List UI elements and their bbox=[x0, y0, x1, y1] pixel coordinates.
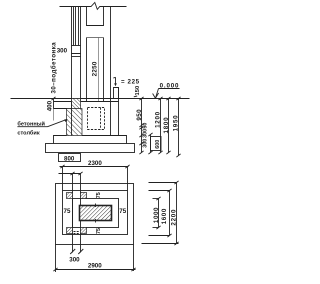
curb right of column bbox=[114, 88, 119, 99]
svg-text:1000: 1000 bbox=[153, 207, 160, 223]
svg-text:600: 600 bbox=[155, 140, 161, 149]
svg-text:75: 75 bbox=[64, 208, 71, 215]
svg-text:300: 300 bbox=[143, 139, 149, 148]
svg-text:150: 150 bbox=[135, 86, 141, 96]
svg-text:800: 800 bbox=[64, 155, 75, 162]
ground line 0.000 bbox=[11, 98, 190, 100]
label l=225 with arrow bbox=[113, 77, 139, 86]
level mark 0.000 bbox=[153, 83, 180, 99]
plan right dims extensions bbox=[142, 183, 179, 244]
concrete post hatch lower bbox=[67, 102, 83, 136]
plan post squares top row bbox=[67, 193, 87, 199]
footing edge extensions to dim 2300 bbox=[63, 167, 128, 191]
svg-text:1800: 1800 bbox=[163, 117, 170, 134]
svg-text:75: 75 bbox=[96, 228, 102, 234]
column outer right edge bbox=[110, 7, 112, 102]
plan rect R2 footing bbox=[63, 191, 128, 235]
plan pedestal hatched thick rect bbox=[80, 206, 112, 221]
plan post squares bottom row bbox=[67, 228, 87, 234]
svg-text:1600: 1600 bbox=[161, 208, 168, 224]
label 75 left bbox=[64, 208, 71, 215]
plan dim 1000 bbox=[153, 197, 161, 229]
label 75 bottom rotated bbox=[96, 228, 102, 234]
column inner rect bbox=[87, 38, 104, 102]
label 400 vertical bbox=[47, 97, 56, 111]
pedestal outline below ground bbox=[111, 88, 119, 136]
svg-text:950: 950 bbox=[136, 109, 143, 121]
label 2250 vertical bbox=[91, 61, 98, 76]
svg-text:75: 75 bbox=[96, 192, 102, 198]
label betonny stolbik with leader bbox=[17, 119, 67, 136]
plan outer rect R1 bbox=[56, 184, 134, 245]
svg-text:2250: 2250 bbox=[91, 61, 98, 76]
svg-text:300: 300 bbox=[69, 256, 80, 263]
dim line B 600 boxed bbox=[148, 133, 161, 154]
U slot at top bbox=[87, 7, 104, 26]
svg-text:1200: 1200 bbox=[154, 111, 161, 128]
foundation top line bbox=[54, 101, 119, 103]
svg-text:50: 50 bbox=[143, 123, 149, 129]
svg-text:400: 400 bbox=[47, 100, 54, 111]
dashed embedded column rect bbox=[88, 108, 105, 130]
joint boxes 300 on band bbox=[72, 46, 81, 57]
plan rect R3 step bbox=[73, 199, 119, 228]
dim line A 950 50 300 300 bbox=[136, 97, 149, 154]
svg-text:75: 75 bbox=[119, 208, 126, 215]
label 75 top rotated bbox=[96, 192, 102, 198]
svg-text:30–подбетонка: 30–подбетонка bbox=[50, 42, 57, 94]
floor line with break symbol bbox=[60, 3, 127, 10]
dim line C 1200 bbox=[154, 97, 162, 154]
footing step 1 bbox=[54, 136, 127, 144]
post axis lines into plan bbox=[59, 172, 83, 253]
svg-text:2200: 2200 bbox=[171, 209, 178, 226]
plan dim 1600 bbox=[161, 189, 171, 237]
label 150 vertical with tick bbox=[134, 86, 141, 97]
svg-text:1950: 1950 bbox=[172, 115, 179, 132]
svg-text:= 225: = 225 bbox=[121, 79, 140, 86]
label 30-podbetonka vertical bbox=[50, 42, 57, 94]
left ledge below ground bbox=[54, 99, 72, 121]
dim 2900 bottom bbox=[53, 245, 135, 273]
svg-text:300: 300 bbox=[143, 129, 149, 138]
footing step 2 bbox=[46, 144, 135, 153]
dim 300 bottom with ticks bbox=[69, 249, 83, 263]
dim 2300 bbox=[60, 160, 130, 168]
svg-text:2900: 2900 bbox=[88, 263, 102, 270]
band below joint bbox=[72, 57, 81, 102]
plan dim 2200 bbox=[171, 181, 179, 245]
svg-text:столбик: столбик bbox=[17, 129, 39, 136]
label 300 bbox=[57, 48, 68, 55]
dim line E 1950 bbox=[172, 97, 180, 157]
svg-text:300: 300 bbox=[57, 48, 68, 55]
centerline ticks on pedestal bbox=[95, 204, 97, 223]
boxed dim 800 bbox=[59, 154, 81, 163]
dim line D 1800 bbox=[163, 97, 171, 154]
concrete post hatch upper bbox=[72, 99, 81, 109]
wall layer lines (band) bbox=[72, 7, 81, 46]
label 75 right bbox=[119, 208, 126, 215]
